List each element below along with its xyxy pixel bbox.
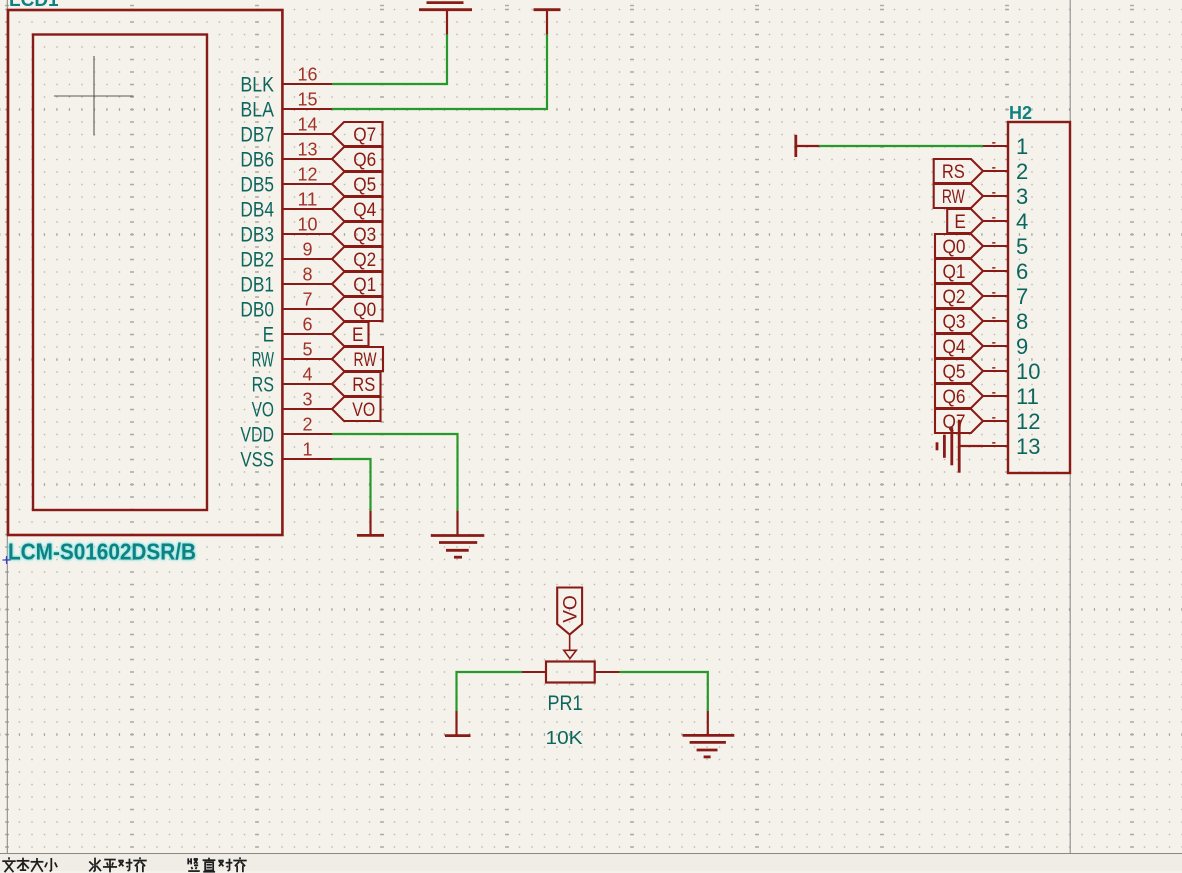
svg-text:Q1: Q1	[353, 275, 376, 296]
svg-text:12: 12	[298, 165, 318, 185]
power bar symbol (top, BLA net)	[534, 10, 561, 35]
status text 文本大小	[0, 849, 6, 860]
svg-text:Q2: Q2	[353, 250, 376, 271]
svg-text:1: 1	[302, 440, 312, 460]
global label Q1 (LCD side)	[332, 272, 383, 296]
pin 15 (BLA) of LCD1	[240, 90, 332, 122]
global label E (LCD side)	[332, 322, 369, 346]
svg-text:BLA: BLA	[240, 98, 274, 121]
global label VO (LCD side)	[332, 397, 381, 421]
pin 12 (DB5) of LCD1	[240, 165, 332, 197]
svg-text:RS: RS	[252, 373, 274, 396]
svg-text:7: 7	[302, 290, 312, 310]
svg-text:9: 9	[1016, 334, 1028, 359]
svg-text:DB3: DB3	[240, 223, 274, 246]
svg-text:RW: RW	[354, 350, 377, 371]
status bar	[0, 853, 1182, 871]
svg-text:3: 3	[302, 390, 312, 410]
global label Q0 (LCD side)	[332, 297, 383, 321]
wire H2 pin1 to power bar	[819, 145, 983, 147]
svg-text:Q3: Q3	[943, 312, 966, 333]
svg-text:10: 10	[1016, 359, 1040, 384]
svg-text:15: 15	[298, 90, 318, 110]
wire PR1 left to power bar	[457, 672, 523, 711]
connector H2 body	[1008, 122, 1070, 473]
pin 4 (RS) of LCD1	[252, 365, 332, 397]
pin 9 (DB2) of LCD1	[240, 240, 332, 272]
svg-text:Q2: Q2	[943, 287, 966, 308]
svg-text:RS: RS	[352, 375, 375, 396]
pin 8 (DB1) of LCD1	[240, 265, 332, 297]
wire BLA pin15 to top power bar	[332, 34, 547, 109]
pin 16 (BLK) of LCD1	[240, 65, 332, 97]
LCD1 screen cross graphic	[54, 56, 134, 136]
svg-text:5: 5	[1016, 234, 1028, 259]
power bar symbol (left of H2 pin1, rotated)	[796, 135, 819, 157]
svg-text:Q0: Q0	[353, 300, 376, 321]
svg-text:VO: VO	[561, 595, 582, 622]
svg-text:LCD1: LCD1	[9, 0, 59, 11]
pin 10 (DB3) of LCD1	[240, 215, 332, 247]
svg-text:VO: VO	[252, 398, 274, 421]
potentiometer PR1 body	[546, 662, 595, 683]
svg-text:VSS: VSS	[240, 448, 274, 471]
wiper arrow of PR1	[564, 635, 577, 659]
ground (rotated, at H2 pin13)	[937, 420, 983, 473]
global label Q5 (LCD side)	[332, 172, 383, 196]
svg-text:Q4: Q4	[353, 200, 376, 221]
global label Q6 (H2 side)	[935, 384, 983, 408]
power bar symbol (below PR1 left)	[445, 711, 471, 736]
svg-text:13: 13	[298, 140, 318, 160]
global label Q0 (H2 side)	[935, 234, 983, 258]
svg-text:6: 6	[302, 315, 312, 335]
global label Q6 (LCD side)	[332, 147, 383, 171]
global label Q4 (H2 side)	[935, 334, 983, 358]
pin 8 of H2	[983, 309, 1028, 334]
global label VO (rotated, above PR1)	[557, 588, 582, 635]
pin 10 of H2	[983, 359, 1040, 384]
wire PR1 right to ground	[620, 672, 708, 711]
pin 4 of H2	[983, 209, 1028, 234]
svg-text:8: 8	[1016, 309, 1028, 334]
sheet border left	[6, 0, 8, 853]
global label RS (H2 side)	[934, 159, 983, 183]
svg-text:11: 11	[298, 190, 318, 210]
global label E (H2 side)	[947, 209, 983, 233]
svg-text:DB2: DB2	[240, 248, 274, 271]
svg-text:3: 3	[1016, 184, 1028, 209]
global label Q1 (H2 side)	[935, 259, 983, 283]
svg-text:DB1: DB1	[240, 273, 274, 296]
svg-text:DB7: DB7	[240, 123, 274, 146]
svg-text:Q7: Q7	[943, 412, 966, 433]
pin 13 (DB6) of LCD1	[240, 140, 332, 172]
LCD module U-symbol LCD1 body	[8, 10, 282, 535]
svg-text:E: E	[954, 212, 966, 233]
svg-text:Q0: Q0	[943, 237, 966, 258]
svg-text:H2: H2	[1009, 103, 1032, 123]
svg-text:4: 4	[1016, 209, 1028, 234]
svg-text:14: 14	[298, 115, 318, 135]
svg-text:DB5: DB5	[240, 173, 274, 196]
svg-text:PR1: PR1	[548, 691, 583, 715]
svg-text:DB6: DB6	[240, 148, 274, 171]
global label Q3 (H2 side)	[935, 309, 983, 333]
svg-text:8: 8	[302, 265, 312, 285]
pin 12 of H2	[983, 409, 1040, 434]
svg-text:Q5: Q5	[353, 175, 376, 196]
svg-text:9: 9	[302, 240, 312, 260]
svg-text:11: 11	[1016, 384, 1039, 409]
pin 5 (RW) of LCD1	[252, 340, 332, 372]
pin 6 of H2	[983, 259, 1028, 284]
pin 3 (VO) of LCD1	[252, 390, 332, 422]
pin 11 (DB4) of LCD1	[240, 190, 332, 222]
global label Q7 (H2 side)	[935, 409, 983, 433]
power bar symbol (below VSS wire)	[357, 511, 384, 536]
svg-text:Q6: Q6	[353, 150, 376, 171]
pin 11 of H2	[983, 384, 1039, 409]
svg-text:VO: VO	[352, 400, 375, 421]
wire VSS pin1 down to power bar	[332, 459, 371, 511]
svg-text:Q3: Q3	[353, 225, 376, 246]
global label Q5 (H2 side)	[935, 359, 983, 383]
svg-text:Q5: Q5	[943, 362, 966, 383]
pin 13 of H2	[983, 434, 1040, 459]
global label Q7 (LCD side)	[332, 122, 383, 146]
svg-text:7: 7	[1016, 284, 1028, 309]
grid emphasis lines (decorative)	[0, 108, 1182, 111]
status text 水平对齐	[0, 849, 6, 860]
svg-text:LCM-S01602DSR/B: LCM-S01602DSR/B	[8, 539, 196, 565]
ground (below PR1 right)	[683, 711, 735, 757]
pin 5 of H2	[983, 234, 1028, 259]
ground (flipped, top, partially clipped)	[419, 3, 472, 35]
pin 14 (DB7) of LCD1	[240, 115, 332, 147]
pin 3 of H2	[983, 184, 1028, 209]
svg-text:10K: 10K	[546, 727, 584, 748]
svg-text:DB4: DB4	[240, 198, 274, 221]
ground (below VDD wire)	[431, 511, 485, 558]
global label RW (H2 side)	[934, 184, 983, 208]
global label Q3 (LCD side)	[332, 222, 383, 246]
svg-text:2: 2	[1016, 159, 1028, 184]
svg-text:RW: RW	[252, 348, 275, 371]
svg-text:1: 1	[1016, 134, 1028, 159]
status text 竖直对齐	[0, 849, 6, 860]
global label RW (LCD side)	[332, 347, 383, 371]
LCD1 screen inner rectangle	[33, 35, 207, 511]
pin 7 of H2	[983, 284, 1028, 309]
sheet border right	[1069, 0, 1071, 853]
svg-text:E: E	[263, 323, 274, 346]
wire VDD pin2 down to ground	[332, 434, 458, 511]
selection anchor cross (blue)	[3, 556, 11, 564]
PR1 left terminal	[522, 671, 546, 673]
wire BLK pin16 to top ground	[332, 34, 447, 84]
pin 1 of H2	[983, 134, 1028, 159]
svg-text:16: 16	[298, 65, 318, 85]
svg-text:Q1: Q1	[943, 262, 966, 283]
svg-text:BLK: BLK	[240, 73, 274, 96]
svg-text:2: 2	[302, 415, 312, 435]
pin 2 of H2	[983, 159, 1028, 184]
svg-text:13: 13	[1016, 434, 1040, 459]
PR1 right terminal	[595, 671, 620, 673]
svg-text:4: 4	[302, 365, 312, 385]
svg-text:Q6: Q6	[943, 387, 966, 408]
svg-text:12: 12	[1016, 409, 1040, 434]
svg-text:5: 5	[302, 340, 312, 360]
svg-text:VDD: VDD	[240, 423, 274, 446]
svg-text:Q4: Q4	[943, 337, 966, 358]
pin 2 (VDD) of LCD1	[240, 415, 332, 447]
svg-text:RW: RW	[942, 187, 965, 208]
svg-text:DB0: DB0	[240, 298, 274, 321]
global label Q2 (LCD side)	[332, 247, 383, 271]
global label Q4 (LCD side)	[332, 197, 383, 221]
svg-text:10: 10	[298, 215, 318, 235]
global label Q2 (H2 side)	[935, 284, 983, 308]
svg-text:E: E	[352, 325, 364, 346]
global label RS (LCD side)	[332, 372, 381, 396]
svg-text:Q7: Q7	[353, 125, 376, 146]
svg-text:6: 6	[1016, 259, 1028, 284]
pin 1 (VSS) of LCD1	[240, 440, 332, 472]
pin 7 (DB0) of LCD1	[240, 290, 332, 322]
pin 6 (E) of LCD1	[263, 315, 332, 347]
svg-text:RS: RS	[942, 162, 965, 183]
pin 9 of H2	[983, 334, 1028, 359]
